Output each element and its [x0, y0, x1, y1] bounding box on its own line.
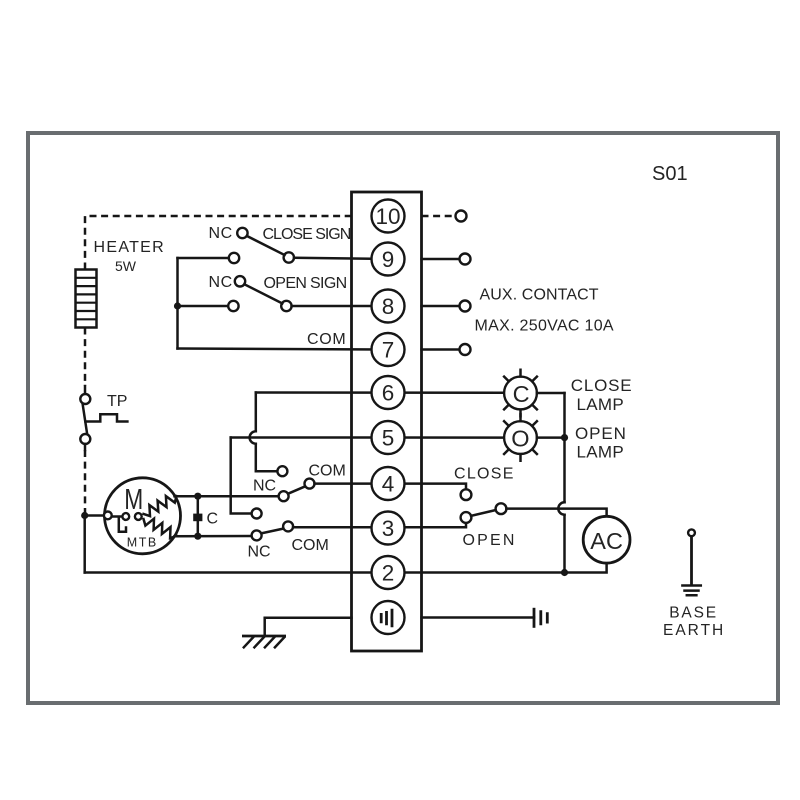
wire close sign to terminal 9: [294, 258, 388, 259]
wire dashed terminal 10 right stub: [422, 215, 456, 218]
wire dashed heater top from heater bus to terminal 10: [85, 216, 352, 270]
svg-text:10: 10: [375, 204, 400, 229]
close limit pivot contact: [279, 491, 289, 501]
wire close limit to terminal 4 and CLOSE button: [315, 484, 467, 490]
svg-text:S01: S01: [652, 163, 688, 185]
OPEN button arm: [471, 510, 496, 516]
wire hop arc lamp bus: [558, 502, 564, 514]
node capacitor bottom: [194, 533, 201, 540]
wire close sign com to bus: [178, 257, 229, 260]
wire dashed TP to motor node: [84, 450, 87, 513]
terminal 2: [372, 556, 405, 589]
svg-text:MAX. 250VAC 10A: MAX. 250VAC 10A: [475, 318, 614, 335]
svg-text:OPEN: OPEN: [463, 532, 517, 549]
ground symbol chassis: [242, 635, 286, 638]
open sign switch arm: [244, 284, 282, 303]
svg-text:8: 8: [382, 294, 395, 319]
wire close lamp to lamp bus: [537, 392, 565, 395]
motor brush contact: [104, 512, 112, 520]
wire terminal 5 line to open lamp: [231, 436, 505, 439]
node motor feed junction: [81, 512, 88, 519]
wire lamp bus vertical with hop over OPEN button wire: [563, 393, 566, 573]
close limit NC contact: [277, 466, 287, 476]
terminal 3: [372, 512, 405, 545]
svg-text:AC: AC: [590, 528, 623, 554]
svg-text:6: 6: [382, 381, 395, 406]
svg-text:NC: NC: [209, 274, 233, 291]
wire motor bottom lead to open limit switch: [175, 535, 252, 538]
svg-text:NC: NC: [253, 478, 276, 495]
svg-text:LAMP: LAMP: [577, 395, 625, 414]
earth symbol right of block: [533, 608, 536, 628]
terminal block TB1: [352, 192, 422, 651]
svg-text:NC: NC: [209, 225, 233, 242]
aux contact pin terminal 9: [460, 254, 471, 265]
svg-text:M: M: [124, 484, 143, 516]
svg-text:AUX. CONTACT: AUX. CONTACT: [480, 287, 599, 304]
base earth electrode: [682, 529, 700, 595]
terminal 10: [372, 200, 405, 233]
open limit output contact: [283, 521, 293, 531]
wire open lamp to lamp bus: [537, 436, 565, 439]
AC source U1: [583, 516, 630, 563]
open lamp O: [504, 414, 537, 460]
svg-text:O: O: [511, 425, 529, 451]
svg-text:CLOSE: CLOSE: [454, 466, 515, 483]
wire open sign to terminal 8: [292, 305, 388, 308]
svg-text:HEATER: HEATER: [94, 239, 166, 256]
wire dashed heater to TP: [84, 328, 87, 387]
wire COM line to terminal 7: [178, 349, 389, 350]
wire terminal 7 right stub: [422, 348, 460, 351]
open limit pivot contact: [252, 530, 262, 540]
wire node to motor brush: [85, 514, 104, 517]
svg-text:3: 3: [382, 516, 395, 541]
wire left bus vertical: [176, 258, 179, 349]
svg-text:EARTH: EARTH: [663, 622, 725, 639]
svg-text:BASE: BASE: [669, 605, 718, 622]
aux contact pin terminal 10: [456, 211, 467, 222]
svg-text:7: 7: [382, 338, 395, 363]
node lamp bus meets terminal 2 line: [561, 569, 568, 576]
motor internal thermal contacts: [112, 515, 122, 518]
motor M1 MTB: [105, 478, 181, 554]
wire motor top lead to close limit switch: [175, 495, 279, 498]
svg-text:CLOSE: CLOSE: [571, 376, 633, 395]
svg-text:MTB: MTB: [127, 536, 156, 550]
terminal 9: [372, 243, 405, 276]
wire terminal 6 down to close limit NC with hop over terminal 5 wire: [256, 393, 277, 472]
svg-text:COM: COM: [309, 463, 346, 480]
svg-text:2: 2: [382, 561, 395, 586]
svg-text:C: C: [207, 511, 219, 528]
capacitor C: [197, 496, 200, 536]
wire earth terminal right stub: [422, 616, 535, 619]
svg-text:9: 9: [382, 247, 395, 272]
terminal 4: [372, 467, 405, 500]
wire terminal 9 right stub: [422, 258, 460, 261]
wire node down to terminal 2 line: [83, 516, 86, 573]
svg-text:NC: NC: [248, 544, 271, 561]
wire terminal 5 down to open limit NC: [231, 438, 252, 514]
svg-text:OPEN SIGN: OPEN SIGN: [264, 275, 347, 292]
aux contact pin terminal 8: [460, 301, 471, 312]
motor winding upper: [144, 496, 177, 516]
close sign switch arm: [247, 236, 285, 255]
thermal protector switch TP: [84, 386, 87, 394]
wire terminal 2 line: [85, 563, 607, 572]
svg-text:TP: TP: [107, 393, 127, 410]
OPEN button contact upper: [461, 512, 472, 523]
open limit NC contact: [252, 509, 262, 519]
motor thermal protector hook: [119, 518, 126, 532]
svg-text:COM: COM: [307, 331, 346, 348]
close limit switch arm: [288, 486, 306, 494]
wire hop arc: [250, 431, 256, 443]
node open sign com junction: [174, 302, 181, 309]
wire terminal 6 line to close lamp: [256, 391, 504, 394]
svg-text:5: 5: [382, 426, 395, 451]
svg-text:OPEN: OPEN: [575, 424, 627, 443]
open limit switch arm: [261, 529, 284, 534]
wire open limit to terminal 3 and OPEN button: [293, 523, 466, 528]
svg-text:LAMP: LAMP: [577, 443, 625, 462]
open sign switch contacts: [228, 301, 238, 311]
heater R1 5W: [76, 270, 97, 328]
terminal 5: [372, 421, 405, 454]
terminal 8: [372, 290, 405, 323]
close lamp C: [504, 370, 537, 416]
close limit output contact: [305, 479, 315, 489]
svg-text:4: 4: [382, 472, 395, 497]
svg-text:CLOSE SIGN: CLOSE SIGN: [263, 226, 351, 243]
CLOSE button contact upper: [461, 489, 472, 500]
wire terminal 8 right stub: [422, 305, 460, 308]
close sign switch contacts: [229, 253, 239, 263]
svg-text:COM: COM: [292, 537, 329, 554]
wire open sign com to bus: [178, 305, 229, 308]
wire internal earth line left: [265, 618, 352, 636]
wire OPEN button to AC top: [506, 509, 606, 517]
svg-text:C: C: [513, 381, 530, 407]
node capacitor top: [194, 493, 201, 500]
terminal 7: [372, 333, 405, 366]
aux contact pin terminal 7: [460, 344, 471, 355]
terminal earth: [372, 601, 405, 634]
node open lamp junction: [561, 434, 568, 441]
OPEN button pivot contact: [496, 503, 507, 514]
svg-text:5W: 5W: [115, 258, 137, 274]
terminal 6: [372, 376, 405, 409]
motor winding lower: [144, 519, 177, 539]
